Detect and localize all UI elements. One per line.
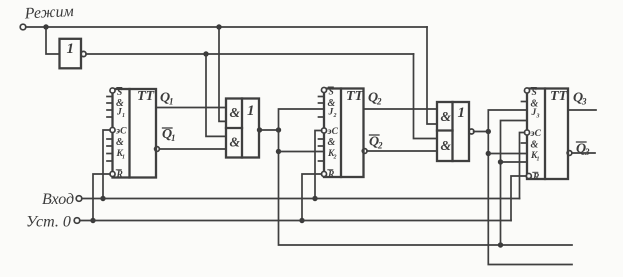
pin stubs J2 group [319,96,325,98]
wire AOI1 out down long feedback [279,130,573,245]
junction R1 on Уст.0 line [90,218,95,223]
wire Уст.0 line [80,220,511,222]
svg-text:&: & [441,109,452,124]
svg-text:Уст. 0: Уст. 0 [26,214,71,231]
pin R3 with circle [526,173,531,178]
junction C1 on Вход line [100,196,105,201]
wire AOI1 out to K2 [279,151,325,153]
pin Q2-bar circle [362,149,367,154]
svg-text:&: & [230,105,241,120]
junction AOI1 output [257,127,262,132]
pin stub [522,142,528,144]
pin C1 dynamic [110,127,115,132]
flip-flop DD1 TT [113,89,157,178]
junction AOI2 out branch [486,129,491,134]
wire terminal to inverter [46,27,59,54]
svg-text:϶C: ϶C [327,127,339,137]
node Уст.0 input terminal [74,218,80,224]
svg-text:1: 1 [67,41,75,57]
svg-text:1: 1 [458,105,466,121]
pin stubs J group [107,96,113,98]
pin S2 with circle [321,87,326,92]
wire inverted Режим down to AOI2 pin3 [414,54,438,139]
pin Q1-bar circle [155,147,160,152]
svg-text:1: 1 [537,157,540,163]
junction Режим to AOI1 [216,24,221,29]
pin R2 with circle [321,171,326,176]
svg-text:TT: TT [137,89,156,104]
svg-text:2: 2 [333,113,337,119]
wire to K3b [501,161,528,163]
svg-text:1: 1 [169,97,174,107]
wire R2 from Уст.0 [302,174,322,221]
svg-text:Режим: Режим [23,3,74,23]
flip-flop DD2 TT [324,89,364,178]
svg-text:&: & [230,135,241,150]
wire Вход line [82,198,520,200]
pin S3 with circle [524,88,529,93]
junction AOI1 out branch [276,127,281,132]
junction K3b [498,159,503,164]
wire C3 from Вход [520,133,525,199]
svg-text:R: R [532,173,539,183]
wire inverted Режим down to AOI1 pin3 [206,54,226,136]
svg-text:S: S [329,88,334,98]
wire Q1 to AOI1 [156,107,226,109]
junction C2 on Вход line [312,196,317,201]
wire AOI2 out to K3a [488,153,527,155]
pin R1 with circle [110,171,115,176]
svg-text:϶C: ϶C [530,129,542,139]
wire Q2 to AOI2 [364,108,438,110]
wire Q3-bar output [572,152,595,154]
junction feedback to FF3 [498,242,503,247]
wire AOI1 out up to J2 [279,109,325,130]
junction inverter out to AOI1 [203,51,208,56]
node Режим input terminal [20,24,26,30]
svg-text:1: 1 [171,133,176,143]
svg-text:&: & [441,138,452,153]
pin stub [522,101,528,103]
pin stubs K group [107,138,113,140]
junction K3a branch [486,151,491,156]
wire C1 from Вход [103,130,110,199]
svg-text:2: 2 [333,155,337,161]
inverter U1 [60,39,82,69]
wire Режим down to AOI2 pin2 [427,27,437,124]
wire AOI2 output [474,131,489,133]
wire Q2-bar to AOI2 [367,150,437,152]
svg-text:S: S [117,88,122,98]
junction at inverter tap [43,24,48,29]
gate AOI1 (AND-OR) [226,99,259,158]
node Вход input terminal [76,196,82,202]
wire R1 from Уст.0 [93,174,110,221]
flip-flop DD3 TT [527,89,568,180]
wire inverter output [86,53,413,55]
svg-text:R: R [116,170,123,180]
wire feedback up to FF3 J3b K3b [501,121,528,246]
pin stubs K2 group [319,138,325,140]
svg-text:1: 1 [247,103,255,119]
wire Режим down to AOI1 pin2 [219,27,226,121]
junction K2 branch [276,149,281,154]
wire AOI1 output [259,129,279,131]
svg-text:2: 2 [377,141,383,151]
pin C2 dynamic [321,128,326,133]
wire AOI2 out up to J3a [488,110,527,132]
wire Режим horizontal top [26,26,427,28]
wire R3 from Уст.0 [511,176,526,221]
svg-text:TT: TT [346,89,365,104]
pin Q3-bar circle [567,151,572,156]
svg-text:1: 1 [122,113,125,119]
gate AOI2 (AND-OR-NOT) [437,102,469,161]
svg-text:&: & [328,137,336,148]
svg-text:&: & [531,140,539,151]
svg-text:3: 3 [536,114,540,120]
svg-text:϶C: ϶C [115,127,127,137]
svg-text:&: & [116,137,124,148]
wire Q1-bar to AOI1 [159,148,226,150]
svg-text:Вход: Вход [42,191,74,208]
svg-text:1: 1 [122,155,125,161]
svg-text:3: 3 [584,147,590,157]
pin AOI2 output inversion circle [469,129,474,134]
junction R2 on Уст.0 line [299,218,304,223]
pin S1 with circle [110,88,115,93]
wire C2 from Вход [315,131,322,199]
wire AOI2 out down feedback line4 [488,132,572,265]
svg-text:2: 2 [376,97,382,107]
svg-text:S: S [532,88,537,98]
svg-text:TT: TT [550,89,569,104]
svg-text:R: R [327,170,334,180]
pin C3 dynamic [524,130,529,135]
svg-text:3: 3 [581,97,587,107]
wire Q3 output [568,109,596,111]
